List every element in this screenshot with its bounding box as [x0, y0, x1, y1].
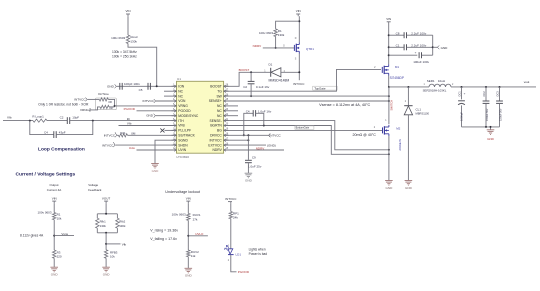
svg-text:2.2uF 100v: 2.2uF 100v: [411, 43, 427, 47]
wire Vfb to R Loop1: [3, 120, 33, 122]
svg-text:10k: 10k: [57, 217, 62, 221]
wire bulk cap row: [389, 54, 418, 56]
wire NDRV row: [224, 149, 284, 151]
svg-text:NDRV: NDRV: [256, 146, 266, 150]
capacitor OC1 1000uF: [461, 87, 463, 99]
svg-text:D1: D1: [269, 62, 273, 66]
svg-text:R1: R1: [278, 29, 282, 33]
svg-text:SW: SW: [216, 94, 222, 98]
svg-text:NC: NC: [178, 94, 183, 98]
svg-text:130k: 130k: [119, 224, 126, 228]
wire VIN to RUV1: [187, 203, 189, 213]
svg-text:GND: GND: [441, 46, 449, 50]
junction SENSE+ at switch node: [388, 100, 390, 102]
wire inductor to vout: [451, 86, 536, 88]
ground at uvlo block: [185, 267, 193, 269]
wire VOUT to divider split: [105, 203, 107, 214]
wire RUV1 to RUV2: [187, 220, 189, 250]
svg-text:LD1: LD1: [236, 252, 242, 256]
svg-text:VIN: VIN: [386, 17, 391, 21]
svg-text:C9: C9: [252, 155, 256, 159]
svg-text:INTVCC: INTVCC: [143, 99, 155, 103]
wire INTVCC row to bypass: [224, 139, 249, 141]
svg-text:0.1uF 16v: 0.1uF 16v: [256, 85, 270, 89]
svg-text:BG: BG: [217, 129, 222, 133]
resistor 0R top option: [99, 98, 108, 101]
svg-text:Only 1 0R resistor, not both -: Only 1 0R resistor, not both - XOR: [38, 103, 89, 107]
ground at output caps: [487, 129, 495, 131]
wire bottom option to VRNG node: [109, 106, 115, 108]
junction return rail: [432, 46, 434, 48]
svg-text:NC: NC: [217, 114, 222, 118]
op-amp U1 LTC3810 controller body: [177, 81, 224, 153]
svg-text:MBRS1100: MBRS1100: [416, 112, 430, 116]
transistor M1 Si7456DP: [381, 67, 383, 73]
svg-text:PGOOD: PGOOD: [178, 109, 191, 113]
svg-text:BGRTN: BGRTN: [210, 124, 222, 128]
svg-text:TopGate: TopGate: [314, 86, 326, 90]
svg-text:G: G: [283, 46, 285, 48]
LED LD1: [228, 249, 233, 254]
svg-text:10pF: 10pF: [72, 115, 79, 119]
svg-text:Vsns: Vsns: [61, 232, 68, 236]
svg-text:Feedback: Feedback: [88, 188, 102, 192]
junction SW at switch node: [388, 95, 390, 97]
wire R1 to R3: [53, 220, 55, 250]
svg-text:NDRV: NDRV: [213, 148, 223, 152]
wire R3 to ground: [53, 258, 55, 267]
wire VRNG row: [115, 105, 177, 107]
svg-text:vout: vout: [524, 80, 530, 84]
node GND label input caps: [437, 46, 439, 50]
svg-text:VFB: VFB: [178, 124, 185, 128]
svg-text:C4: C4: [246, 109, 250, 113]
resistor RFB3 10k: [104, 250, 107, 258]
svg-text:Uvlo: Uvlo: [129, 146, 135, 150]
junction gate node: [275, 47, 277, 49]
wire LED to PGOOD label: [231, 255, 237, 272]
svg-text:SENSE+: SENSE+: [209, 99, 222, 103]
svg-text:SENSE-: SENSE-: [210, 119, 222, 123]
ground at CL1: [405, 180, 413, 182]
wire QTR1 source down: [298, 54, 300, 81]
svg-text:GND: GND: [152, 169, 160, 173]
junction BGRTN at C4: [263, 125, 265, 127]
svg-text:1000uF: 1000uF: [460, 112, 464, 121]
capacitor C2 bootstrap 0.1uF 16v: [250, 72, 252, 81]
svg-text:GND: GND: [487, 137, 495, 141]
svg-text:TG: TG: [217, 89, 222, 93]
svg-text:OC2: OC2: [482, 91, 486, 97]
ground at SGND: [151, 163, 159, 165]
wire branch to R1: [276, 21, 300, 29]
svg-text:130k: 130k: [278, 33, 285, 37]
svg-text:0R: 0R: [108, 100, 111, 104]
wire SENSE- run to power ground: [224, 121, 389, 150]
svg-text:M1: M1: [395, 65, 399, 69]
wire bootstrap cap to SW row: [250, 84, 252, 96]
svg-text:SWITCH: SWITCH: [390, 100, 394, 111]
svg-text:Vfb: Vfb: [127, 122, 132, 126]
svg-text:UVLO: UVLO: [195, 232, 204, 236]
junction input cap C8: [388, 34, 390, 36]
wire VIN down to QTR1 drain: [298, 16, 300, 42]
wire divider join bar: [96, 228, 98, 233]
wire UVIN row: [137, 149, 177, 151]
svg-text:NDRV: NDRV: [253, 44, 263, 48]
junction input cap C1: [388, 46, 390, 48]
svg-text:C1: C1: [396, 43, 400, 47]
wire switch node down to M2: [388, 87, 390, 124]
resistor Rfb2 130k: [116, 218, 119, 228]
svg-text:1.0uF 16v: 1.0uF 16v: [258, 109, 272, 113]
svg-text:Vfb: Vfb: [122, 242, 127, 246]
wire RFB3 to ground: [105, 258, 107, 267]
svg-text:VIN: VIN: [125, 9, 130, 13]
svg-text:MMSD4148M: MMSD4148M: [269, 78, 290, 82]
resistor R1 130k: [274, 29, 277, 37]
svg-text:20mΩ @ 40°C: 20mΩ @ 40°C: [353, 133, 377, 137]
svg-text:PGOOD: PGOOD: [124, 107, 136, 111]
svg-text:100v 0603: 100v 0603: [172, 213, 186, 217]
junction BGRTN at M2 source: [388, 153, 390, 155]
svg-text:PLL/LPF: PLL/LPF: [178, 129, 191, 133]
svg-text:ITH: ITH: [178, 119, 184, 123]
wire VIN rail down to M1: [388, 24, 390, 64]
svg-text:(GND): (GND): [267, 143, 276, 147]
svg-text:NC: NC: [217, 109, 222, 113]
resistor RP1 24k: [229, 212, 232, 219]
svg-text:+: +: [464, 92, 466, 96]
wire lower branch to junction: [56, 121, 93, 135]
junction C4 at DRVCC: [243, 134, 245, 136]
svg-text:BOOST: BOOST: [210, 85, 222, 89]
node UVLO label: [188, 235, 208, 237]
svg-text:C8: C8: [396, 31, 400, 35]
svg-text:OC1: OC1: [457, 91, 461, 97]
wire INTVCC to R21: [117, 134, 119, 136]
svg-text:C5: C5: [139, 88, 143, 92]
wire VIN to Rosd: [127, 16, 129, 35]
junction output cap OC2: [485, 86, 487, 88]
wire BG to M2 gate: [224, 129, 383, 131]
wire C8 row: [389, 34, 404, 36]
diode CL1 MBRS1100: [407, 86, 409, 88]
resistor R1 10k current set: [53, 213, 56, 220]
wire BGRTN run to power ground: [224, 126, 389, 155]
junction ION node: [156, 85, 158, 87]
svg-text:INTVCC: INTVCC: [269, 134, 281, 138]
svg-text:Loop Compensation: Loop Compensation: [38, 147, 85, 153]
transistor M2 Si7850DP: [382, 127, 384, 133]
wire Rosd to ION corner: [128, 44, 157, 87]
junction SENSE- at M2 source: [388, 149, 390, 151]
wire divider split bar: [97, 213, 117, 215]
svg-text:150uF 50v: 150uF 50v: [485, 108, 489, 121]
svg-text:INTVCC: INTVCC: [210, 138, 223, 142]
wire output cap return: [462, 126, 500, 128]
svg-text:DRVCC: DRVCC: [210, 134, 222, 138]
svg-text:MODE/SYNC: MODE/SYNC: [178, 114, 199, 118]
svg-text:ION: ION: [178, 85, 184, 89]
junction QTR1 source to D1: [298, 71, 300, 73]
capacitor OC2 150uF 50v: [485, 87, 487, 101]
junction comp branch left: [29, 120, 31, 122]
wire R21 to SS/TRACK pin: [128, 134, 177, 136]
wire PGOOD row: [137, 110, 177, 112]
svg-text:VRNG2: VRNG2: [80, 108, 91, 112]
svg-text:Undervoltage lockout: Undervoltage lockout: [165, 190, 200, 194]
node BottomGate label: [295, 126, 314, 129]
svg-text:Si7456DP: Si7456DP: [390, 76, 404, 80]
resistor 0R bottom option: [100, 105, 109, 108]
svg-text:100uF 100v: 100uF 100v: [413, 60, 429, 64]
svg-text:NC: NC: [178, 89, 183, 93]
wire join to RFB3: [105, 233, 107, 250]
wire SW long run: [224, 95, 389, 97]
svg-text:Rfb1: Rfb1: [100, 220, 106, 224]
node Vfb label at divider: [106, 243, 120, 245]
wire D1 anode to INTVCC node: [281, 71, 299, 73]
svg-text:100v 0603: 100v 0603: [37, 210, 51, 214]
svg-text:VIN: VIN: [186, 196, 191, 200]
svg-text:10k: 10k: [110, 255, 115, 259]
wire DRVCC row: [224, 134, 269, 136]
svg-text:Power is bad: Power is bad: [249, 252, 268, 256]
svg-text:SS/TRACK: SS/TRACK: [178, 134, 195, 138]
svg-text:Vsense = 8.112mv at 4A, 40°C: Vsense = 8.112mv at 4A, 40°C: [319, 103, 370, 107]
junction comp branch right: [92, 120, 94, 122]
svg-text:INTVCC: INTVCC: [102, 143, 114, 147]
svg-text:EXTVCC: EXTVCC: [208, 143, 222, 147]
svg-text:V_rising = 19.36v: V_rising = 19.36v: [150, 229, 178, 233]
svg-text:GND: GND: [103, 273, 111, 277]
svg-text:INTVCC: INTVCC: [225, 197, 237, 201]
svg-text:BottomGate: BottomGate: [296, 126, 310, 130]
svg-text:INTVCC: INTVCC: [104, 134, 116, 138]
wire SENSE+ long run: [224, 100, 389, 102]
wire R1 to gate node: [275, 37, 277, 48]
svg-text:C2: C2: [243, 85, 247, 89]
wire VIN to R1 divider: [53, 203, 55, 212]
wire C9 to ground: [247, 163, 249, 173]
svg-text:ith: ith: [127, 117, 130, 121]
wire NDRV to QTR1 gate: [263, 47, 295, 49]
svg-text:100k = 250.1kHz: 100k = 250.1kHz: [112, 55, 137, 59]
svg-text:U1: U1: [177, 77, 181, 81]
svg-text:100v 0603: 100v 0603: [259, 31, 273, 35]
wire INTVCC to R 0R top: [88, 98, 100, 100]
capacitor C5: [147, 83, 149, 90]
wire BOOST pin up and over: [224, 72, 271, 86]
wire INTVCC to RP1: [230, 204, 232, 212]
wire C1 row: [389, 46, 404, 48]
node TopGate label: [313, 86, 337, 90]
svg-text:VIN: VIN: [296, 9, 301, 13]
svg-text:M2: M2: [396, 126, 400, 130]
no-connect X on PLL/LPF: [160, 128, 164, 132]
junction output cap OC3: [499, 86, 501, 88]
svg-text:GND: GND: [51, 273, 59, 277]
svg-text:PGOOD: PGOOD: [238, 270, 250, 274]
wire return to ground: [490, 127, 492, 130]
junction output cap OC1: [461, 86, 463, 88]
resistor RUV1 27k: [187, 213, 190, 220]
wire top option to VRNG node: [108, 99, 114, 106]
svg-text:GND: GND: [146, 114, 154, 118]
resistor RUV2 1k: [187, 250, 190, 257]
svg-text:NC: NC: [217, 104, 222, 108]
svg-text:Si7850DP: Si7850DP: [398, 139, 402, 151]
wire input cap return rail: [432, 35, 434, 55]
svg-text:Rosd: Rosd: [130, 35, 137, 39]
svg-text:GND: GND: [245, 179, 253, 183]
capacitor OC3 150uF 50v: [499, 87, 501, 101]
svg-text:+: +: [415, 51, 417, 55]
ground at M2 source: [385, 180, 393, 182]
resistor Rfb1 130k: [96, 218, 99, 228]
wire C2 to junction: [70, 120, 177, 122]
option box around 0R resistors: [96, 98, 117, 110]
wire RUV2 to ground: [187, 257, 189, 269]
wire lower comp branch: [30, 121, 54, 135]
svg-text:Lights when: Lights when: [249, 247, 266, 251]
resistor Rosd 130k: [126, 35, 129, 44]
svg-text:SGND: SGND: [178, 138, 188, 142]
capacitor C4 1.0uF 16v drvcc: [244, 113, 253, 135]
svg-text:Rfb2: Rfb2: [119, 220, 125, 224]
junction VRNG select: [114, 105, 116, 107]
svg-text:OC3: OC3: [495, 91, 499, 97]
svg-text:43pF: 43pF: [59, 130, 66, 134]
svg-text:C4: C4: [44, 130, 48, 134]
svg-text:130k: 130k: [130, 40, 137, 44]
svg-text:R Loop1: R Loop1: [32, 114, 44, 118]
svg-text:INTVCC: INTVCC: [74, 98, 86, 102]
wire RP1 to LED: [230, 219, 232, 249]
resistor R3 220: [53, 250, 56, 258]
svg-text:LTC3810: LTC3810: [177, 155, 190, 159]
junction DRVCC INTVCC tie: [247, 134, 249, 136]
svg-text:GND: GND: [185, 274, 193, 278]
svg-text:130k: 130k: [100, 224, 107, 228]
wire M2 source down to ground: [388, 136, 390, 181]
svg-text:100pF 100v: 100pF 100v: [124, 82, 140, 86]
wire VRNG2 to R 0R bottom: [92, 107, 101, 110]
svg-text:VIN: VIN: [52, 196, 57, 200]
svg-text:GND: GND: [405, 186, 413, 190]
wire M1 source to SW rail: [388, 76, 390, 87]
svg-text:11k: 11k: [191, 254, 196, 258]
junction SW rail at M1: [388, 86, 390, 88]
svg-text:8.112v gives 4A: 8.112v gives 4A: [20, 233, 44, 237]
svg-text:VON: VON: [178, 99, 186, 103]
wire R Loop1 to C2: [47, 120, 67, 122]
ground at C9: [245, 172, 253, 174]
junction Vfb node: [105, 243, 107, 245]
wire SGND to ground: [155, 140, 177, 163]
transistor QTR1: [293, 45, 295, 51]
wire SW rail to inductor: [389, 86, 429, 88]
svg-text:C2: C2: [60, 115, 64, 119]
svg-text:150uF 50v: 150uF 50v: [499, 108, 503, 121]
wire CL1 anode to ground: [407, 115, 409, 181]
ground at feedback block: [102, 266, 110, 268]
svg-text:INTVCC: INTVCC: [293, 82, 305, 86]
junction UVLO node: [187, 235, 189, 237]
svg-text:Current 4A: Current 4A: [47, 188, 62, 192]
wire VON row: [156, 100, 177, 102]
svg-text:Voltage: Voltage: [88, 183, 98, 187]
svg-text:CL1: CL1: [416, 108, 422, 112]
svg-text:VRNG: VRNG: [178, 104, 188, 108]
svg-text:SER1: SER1: [427, 79, 435, 83]
svg-text:BOOST: BOOST: [239, 68, 250, 72]
svg-text:QTR1: QTR1: [306, 47, 314, 51]
wire VFB row: [119, 125, 177, 127]
svg-text:1.0uF 25v: 1.0uF 25v: [248, 164, 262, 168]
svg-text:220: 220: [57, 255, 62, 259]
svg-text:24k: 24k: [233, 215, 238, 219]
junction bootstrap cap top: [250, 71, 252, 73]
svg-text:Current / Voltage Settings: Current / Voltage Settings: [16, 172, 76, 178]
wire ION row: [117, 85, 177, 87]
svg-text:Vfb: Vfb: [7, 115, 12, 119]
capacitor C3 100pF 100v: [119, 83, 121, 90]
wire EXTVCC row: [224, 144, 266, 146]
wire PLL/LPF stub: [165, 129, 177, 131]
svg-text:GND: GND: [107, 84, 115, 88]
junction bulk cap row: [388, 54, 390, 56]
wire MODE/SYNC row: [156, 115, 177, 117]
svg-text:GND: GND: [386, 186, 394, 190]
junction R1 branch: [298, 20, 300, 22]
svg-text:VOUT: VOUT: [102, 196, 111, 200]
wire INTVCC tie down to C9: [247, 135, 249, 160]
junction Vsns node: [53, 235, 55, 237]
svg-text:UVIN: UVIN: [178, 148, 186, 152]
ground at current block: [50, 266, 58, 268]
svg-text:2.2uF 100v: 2.2uF 100v: [411, 31, 427, 35]
wire SHDN row: [115, 144, 176, 146]
svg-text:10uH: 10uH: [438, 79, 445, 83]
svg-text:100v 0603: 100v 0603: [111, 36, 125, 40]
svg-text:SER2918H-103KL: SER2918H-103KL: [423, 89, 447, 93]
svg-text:Output: Output: [49, 183, 58, 187]
svg-text:V_falling = 17.6v: V_falling = 17.6v: [150, 237, 177, 241]
node Vsns label: [54, 235, 74, 237]
svg-text:27k: 27k: [193, 217, 198, 221]
svg-text:OnTime: OnTime: [98, 92, 109, 96]
junction output return: [485, 126, 487, 128]
junction bootstrap cap bottom: [250, 95, 252, 97]
wire TG to M1 gate: [224, 69, 381, 91]
svg-text:SHDN: SHDN: [178, 143, 188, 147]
